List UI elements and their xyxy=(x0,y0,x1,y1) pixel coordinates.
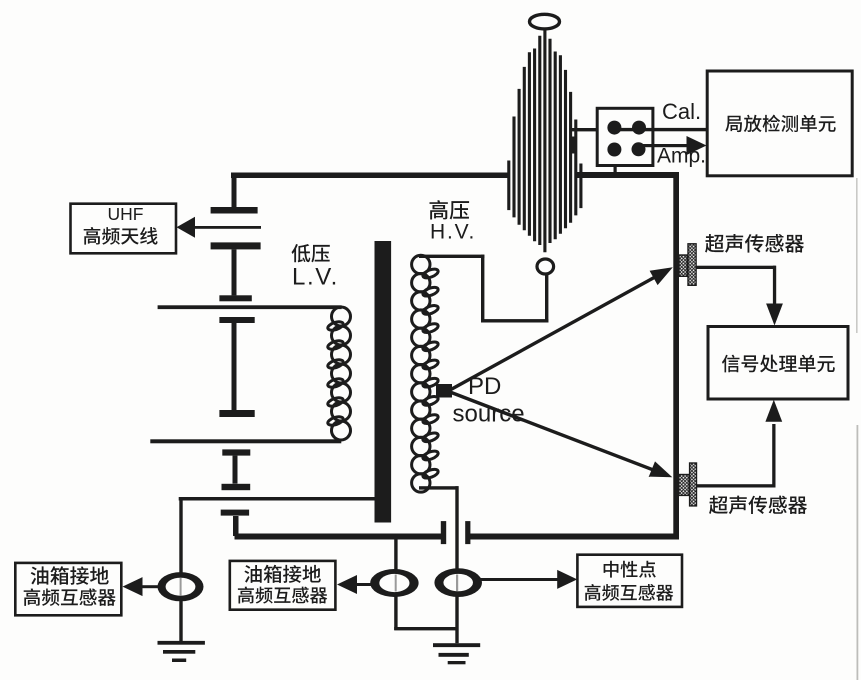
HV bushing condenser stack xyxy=(509,30,581,252)
wall plate D xyxy=(219,317,254,323)
wire neutral lead down xyxy=(455,486,458,643)
wire acoustic path upper xyxy=(450,277,656,391)
tank left wall segment 5 xyxy=(233,516,239,536)
wire LV top terminal xyxy=(158,305,342,309)
wire middle ground down xyxy=(394,539,397,630)
wall plate B xyxy=(211,242,261,249)
label box3 line1 xyxy=(604,561,656,578)
svg-text:H.V.: H.V. xyxy=(430,221,476,244)
wall plate C xyxy=(219,295,251,301)
signal processing unit box xyxy=(708,327,848,400)
label box1 line1 xyxy=(31,566,109,585)
svg-text:source: source xyxy=(453,400,525,427)
arrow Amp into detection unit xyxy=(687,136,707,155)
wall plate F xyxy=(222,449,250,455)
wire neutral lead horizontal xyxy=(419,486,459,489)
wire core ground tap xyxy=(179,497,377,501)
wall plate G xyxy=(222,484,251,490)
ultrasonic sensor 1 outer bar xyxy=(688,244,696,285)
svg-text:L.V.: L.V. xyxy=(292,264,339,291)
HV winding coil xyxy=(412,255,440,492)
wire HV jog up to bushing xyxy=(545,274,548,323)
ultrasonic sensor 2 inner pad xyxy=(679,475,689,496)
label box2 line1 xyxy=(244,565,320,583)
PD detection unit box xyxy=(707,71,852,176)
coupler pin 1 xyxy=(607,121,621,135)
wire HV jog horizontal xyxy=(481,319,548,322)
coupler blob on bushing xyxy=(570,137,576,154)
wire middle ground horizontal xyxy=(394,627,458,630)
wire HV top lead horizontal xyxy=(419,255,484,258)
arrow into tank-ground box 2 xyxy=(337,575,357,594)
wire bushing tap to coupler xyxy=(570,128,598,131)
arrow acoustic lower into sensor xyxy=(649,461,673,477)
tank left wall segment 3 xyxy=(232,323,237,410)
arrow acoustic upper into sensor xyxy=(650,267,673,285)
calibration coupler box xyxy=(597,108,653,165)
wire LV bottom terminal xyxy=(150,439,341,443)
ultrasonic sensor 2 outer bar xyxy=(690,463,697,506)
HFCT 1 ring xyxy=(158,572,204,601)
svg-text:Cal.: Cal. xyxy=(662,99,701,124)
arrow into UHF box xyxy=(177,217,196,238)
tank left wall segment 2 xyxy=(232,249,237,295)
HFCT 3 ring xyxy=(434,568,482,597)
UHF antenna box xyxy=(71,204,177,254)
ultrasonic sensor 1 inner pad xyxy=(679,255,687,276)
wire HV top lead down xyxy=(481,255,484,323)
tank ground HFCT box 1 xyxy=(15,563,121,615)
wire sensor1 to corner xyxy=(696,266,776,269)
label signal processing unit xyxy=(722,355,835,373)
HFCT 2 ring xyxy=(370,569,418,597)
label LV cn xyxy=(292,244,330,262)
wire HFCT1 to box xyxy=(140,585,160,588)
wire acoustic path lower xyxy=(450,392,656,471)
wall plate A xyxy=(211,207,258,214)
coupler pin 3 xyxy=(607,143,621,157)
LV winding coil xyxy=(327,307,351,440)
arrow into signal unit top xyxy=(766,304,783,326)
scan artifact right edge upper xyxy=(856,178,858,333)
arrow into tank-ground box 1 xyxy=(123,577,143,596)
coupler pin 2 xyxy=(632,121,646,135)
wire corner down to signal unit xyxy=(773,266,776,306)
label HV cn xyxy=(429,200,469,219)
wire corner up to signal unit xyxy=(772,424,775,486)
svg-text:Amp.: Amp. xyxy=(657,145,706,168)
tank top wall right segment xyxy=(577,172,679,178)
label box3 line2 xyxy=(585,584,674,601)
tank ground HFCT box 2 xyxy=(230,561,336,610)
neutral HFCT box xyxy=(577,555,682,607)
tank bottom wall left segment xyxy=(235,534,444,540)
arrow into signal unit bottom xyxy=(765,400,782,422)
neutral gap plate left xyxy=(441,521,446,544)
PD source square xyxy=(436,384,452,398)
wire Amp line xyxy=(638,144,688,147)
tank left wall segment 1 xyxy=(232,173,237,208)
tank top wall left segment xyxy=(231,173,510,179)
HV bushing top terminal ellipse xyxy=(530,14,560,29)
wall plate E xyxy=(219,410,254,417)
core bar xyxy=(375,241,392,523)
wire UHF antenna lead xyxy=(193,226,261,229)
coupler pin 4 xyxy=(632,142,646,156)
tank bottom wall right segment xyxy=(470,534,679,540)
label ultrasonic sensor 1 xyxy=(705,234,804,253)
coupler ground stub to tank wall xyxy=(614,166,617,174)
arrow into neutral box xyxy=(557,570,577,589)
label box1 line2 xyxy=(24,588,116,606)
label ultrasonic sensor 2 xyxy=(709,496,807,515)
wire left ground down xyxy=(179,497,182,642)
HV bushing lower terminal ellipse xyxy=(537,259,554,274)
wire sensor2 to corner xyxy=(697,484,776,487)
label PD detection unit xyxy=(725,115,835,132)
wall plate H xyxy=(221,510,249,516)
label box2 line2 xyxy=(238,587,327,604)
svg-text:UHF: UHF xyxy=(108,204,144,224)
ground symbol left xyxy=(158,641,205,662)
label UHF antenna cn xyxy=(84,227,158,245)
wire HFCT3 to box xyxy=(480,578,559,581)
ground symbol neutral xyxy=(433,643,480,664)
scan artifact right edge lower xyxy=(857,425,859,680)
tank left wall segment 4 xyxy=(233,456,238,484)
tank right wall xyxy=(673,172,679,540)
wire Cal line to detection unit xyxy=(614,128,707,131)
neutral gap plate right xyxy=(465,521,470,544)
wire HFCT2 to box xyxy=(355,583,376,586)
